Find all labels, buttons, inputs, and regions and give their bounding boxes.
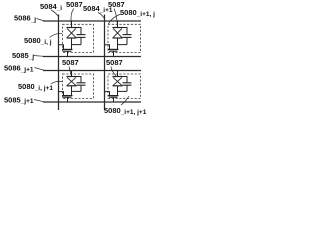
wire: transistor gate lead down to scan line 5085 (cell C) (67, 97, 69, 102)
transistor drain contact stub (cell B) (117, 45, 119, 50)
transistor drain contact stub (cell A) (71, 45, 73, 50)
liquid crystal element 5087 crossed diagonals (cell B) (113, 28, 122, 37)
capacitor line 5086_j+1 (horizontal) (43, 70, 141, 72)
liquid crystal element 5087 bottom plate (cell A) (67, 37, 77, 39)
pixel cell 5080 box C (dashed outline) (63, 74, 94, 99)
transistor gate electrode bar (cell B) (109, 50, 118, 52)
wire: top node tie from LC element to capacitor (cell D) (118, 77, 128, 83)
leader from label 5084_i to signal line (51, 10, 58, 17)
transistor gate electrode bar (cell A) (63, 50, 72, 52)
wire: capacitor bottom lead down to drain node (cell A) (80, 37, 82, 44)
wire: capacitor bottom lead down to drain node (cell C) (80, 85, 82, 91)
pixel cell 5080 box A (dashed outline) (63, 24, 94, 52)
leader from label 5080_i+1,j+1 to cell D box (121, 96, 129, 105)
wire: capacitor bottom lead down to drain node (cell D) (126, 85, 128, 91)
storage capacitor bottom plate (cell C) (77, 84, 86, 86)
signal line 5084_i+1 (vertical) (104, 15, 106, 111)
wire: drain node, LC bottom plate to transistor drain (cell D) (118, 86, 128, 92)
leader from label 5080_i,j+1 to cell C box (51, 81, 62, 84)
transistor channel bar (cell A) (62, 48, 73, 50)
liquid crystal element 5087 crossed diagonals (cell C) (67, 77, 76, 85)
wire: capacitor bottom lead down to drain node (cell B) (126, 37, 128, 44)
liquid crystal element 5087 top plate (cell A) (67, 27, 77, 29)
wire: LC element top lead to capacitor line (cell B) (117, 21, 119, 27)
leader from label 5085_j to scan line (33, 55, 44, 58)
wire: top node tie from LC element to capacitor (cell C) (72, 77, 82, 83)
liquid crystal element 5087 crossed diagonals (cell D) (113, 77, 122, 85)
leader from label 5087 to LC element of cell C (69, 67, 71, 76)
storage capacitor bottom plate (cell D) (123, 84, 132, 86)
wire: LC element top lead to capacitor line (cell C) (71, 71, 73, 77)
leader from label 5087 to LC element of cell D (111, 67, 116, 76)
wire: LC element top lead to capacitor line (cell D) (117, 71, 119, 77)
wire: transistor gate lead down to scan line 5085 (cell D) (113, 97, 115, 102)
wire: top node tie from LC element to capacitor (cell B) (118, 28, 128, 35)
svg-text:5087: 5087 (62, 58, 79, 67)
storage capacitor top plate (cell C) (77, 82, 86, 84)
storage capacitor top plate (cell A) (77, 34, 86, 36)
liquid crystal element 5087 top plate (cell B) (113, 27, 123, 29)
leader from label 5086_j to capacitor line (37, 19, 45, 21)
transistor drain contact stub (cell D) (117, 91, 119, 95)
leader from label 5085_j+1 to scan line (34, 100, 44, 102)
liquid crystal element 5087 bottom plate (cell B) (113, 37, 123, 39)
liquid crystal element 5087 bottom plate (cell C) (67, 85, 77, 87)
wire: LC element top lead to capacitor line (cell A) (71, 21, 73, 27)
wire: drain node, LC bottom plate to transistor drain (cell C) (72, 86, 82, 92)
transistor gate electrode bar (cell C) (63, 96, 72, 98)
liquid crystal element 5087 crossed diagonals (cell A) (67, 28, 76, 37)
wire: transistor source to signal line 5084 (cell D) (105, 92, 110, 96)
transistor channel bar (cell B) (108, 48, 119, 50)
storage capacitor top plate (cell D) (123, 82, 132, 84)
transistor channel bar (cell D) (108, 95, 119, 97)
storage capacitor bottom plate (cell A) (77, 36, 86, 38)
leader from label 5086_j+1 to capacitor line (35, 68, 45, 71)
leader from label 5087 to LC element of cell B (114, 9, 117, 26)
wire: transistor source to signal line 5084 (cell C) (59, 92, 64, 96)
svg-text:5087: 5087 (106, 58, 123, 67)
transistor drain contact stub (cell C) (71, 91, 73, 95)
leader from label 5080_i+1,j to cell B box (108, 14, 121, 24)
transistor channel bar (cell C) (62, 95, 73, 97)
signal line 5084_i (vertical) (58, 15, 60, 111)
wire: drain node, LC bottom plate to transistor drain (cell A) (72, 38, 82, 45)
capacitor line 5086_j (horizontal) (43, 20, 141, 22)
svg-text:5087: 5087 (66, 0, 83, 9)
wire: transistor gate lead down to scan line 5085 (cell B) (113, 51, 115, 56)
wire: transistor source to signal line 5084 (cell A) (59, 45, 64, 50)
leader from label 5087 to LC element of cell A (71, 9, 74, 26)
pixel cell 5080 box D (dashed outline) (108, 74, 141, 99)
storage capacitor top plate (cell B) (123, 34, 132, 36)
wire: drain node, LC bottom plate to transistor drain (cell B) (118, 38, 128, 45)
scan line 5085_j (horizontal) (43, 56, 141, 58)
transistor gate electrode bar (cell D) (109, 96, 118, 98)
wire: top node tie from LC element to capacitor (cell A) (72, 28, 82, 35)
storage capacitor bottom plate (cell B) (123, 36, 132, 38)
liquid crystal element 5087 top plate (cell D) (113, 76, 123, 78)
wire: transistor source to signal line 5084 (cell B) (105, 45, 110, 50)
pixel cell 5080 box B (dashed outline) (108, 24, 141, 52)
liquid crystal element 5087 top plate (cell C) (67, 76, 77, 78)
scan line 5085_j+1 (horizontal) (43, 101, 141, 103)
liquid crystal element 5087 bottom plate (cell D) (113, 85, 123, 87)
leader from label 5080_i,j to cell A box (50, 33, 63, 37)
wire: transistor gate lead down to scan line 5085 (cell A) (67, 51, 69, 56)
leader from label 5084_i+1 to signal line (98, 13, 104, 19)
